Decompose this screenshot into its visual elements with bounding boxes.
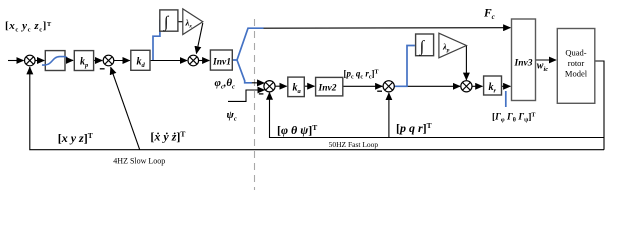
- svg-text:Model: Model: [565, 69, 588, 79]
- svg-text:4HZ Slow Loop: 4HZ Slow Loop: [113, 157, 165, 166]
- svg-text:[ẋ ẏ ż]T: [ẋ ẏ ż]T: [150, 130, 185, 144]
- svg-text:50HZ Fast Loop: 50HZ Fast Loop: [329, 140, 379, 149]
- svg-text:[φ θ ψ]T: [φ θ ψ]T: [277, 123, 317, 137]
- svg-text:Inv3: Inv3: [514, 59, 533, 69]
- svg-text:Inv2: Inv2: [318, 84, 337, 94]
- svg-text:Quad-: Quad-: [565, 48, 586, 58]
- svg-text:[x y z]T: [x y z]T: [58, 131, 93, 145]
- svg-text:φc,θc: φc,θc: [215, 77, 236, 91]
- svg-text:[p q r]T: [p q r]T: [396, 121, 432, 135]
- svg-text:Inv1: Inv1: [212, 58, 231, 68]
- svg-text:rotor: rotor: [568, 58, 585, 68]
